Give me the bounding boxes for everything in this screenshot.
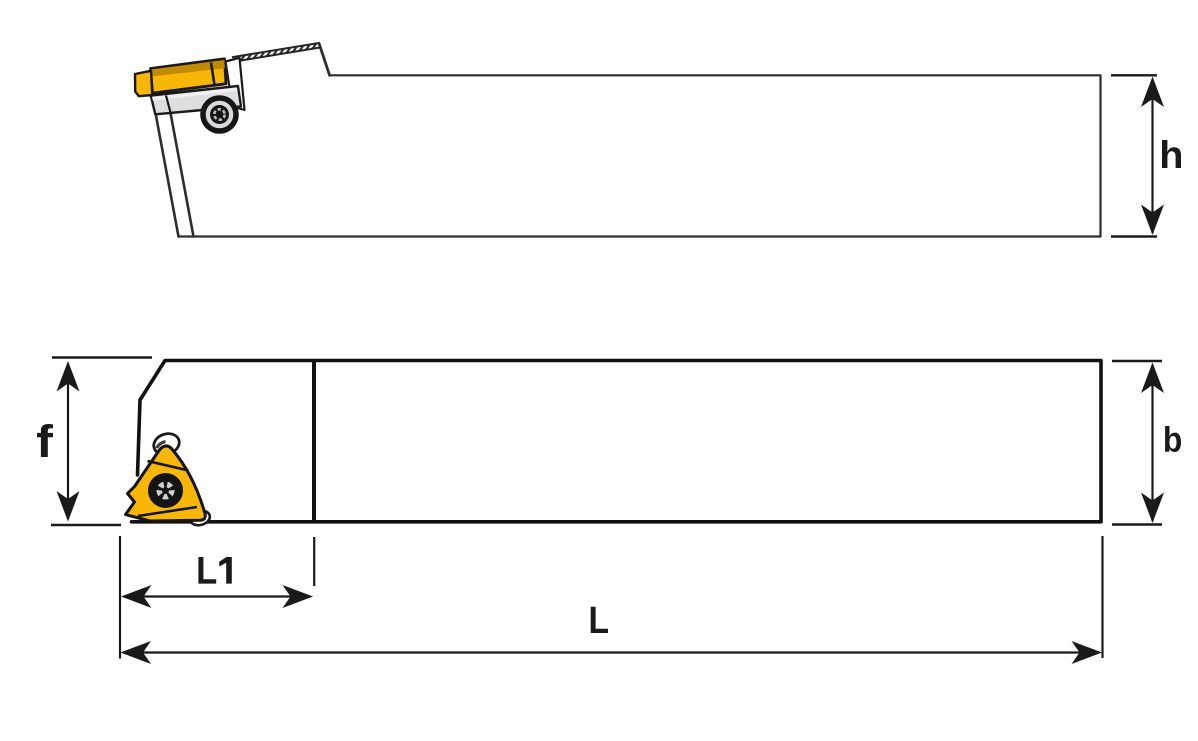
front clearance face edge line 1 bbox=[156, 113, 179, 237]
cartridge inner divider line bbox=[166, 96, 171, 113]
L arrowhead right bbox=[1072, 641, 1103, 664]
dimension f bbox=[37, 358, 152, 526]
f arrowhead up bbox=[57, 361, 80, 392]
hatched clamp arm strip bbox=[232, 43, 320, 62]
f extension tick bottom bbox=[51, 524, 121, 526]
threading insert (plan view, trigon with serrated flank) bbox=[126, 446, 206, 521]
h dimension line bbox=[1151, 79, 1153, 233]
h extension tick top bbox=[1111, 74, 1157, 76]
b extension tick top bbox=[1112, 360, 1162, 362]
clamp screw head (side view) bbox=[200, 95, 239, 134]
f dimension line bbox=[67, 364, 69, 519]
yellow left end cap bbox=[135, 71, 152, 96]
b dimension line bbox=[1151, 365, 1153, 521]
h extension tick bottom bbox=[1111, 235, 1157, 237]
b arrowhead up bbox=[1141, 363, 1164, 394]
insert chip-breaker line lower bbox=[138, 507, 197, 516]
toolholder body plan-view outline with chamfered head bbox=[132, 361, 1102, 522]
head/shank divider line bbox=[312, 362, 316, 521]
dimension L1 bbox=[120, 536, 314, 659]
L1 arrowhead left bbox=[121, 585, 152, 608]
L1/L shared left extension line bbox=[119, 536, 121, 659]
label f bbox=[37, 424, 53, 457]
cartridge top highlight bbox=[152, 88, 237, 101]
f arrowhead down bbox=[57, 491, 80, 522]
b arrowhead down bbox=[1141, 493, 1164, 524]
white clamp finger bbox=[226, 58, 245, 110]
front clearance face edge line 2 bbox=[171, 113, 194, 237]
L arrowhead left bbox=[121, 641, 152, 664]
label L bbox=[591, 607, 608, 633]
dimension h bbox=[1111, 75, 1181, 236]
insert screw hole with torx socket bbox=[148, 473, 183, 508]
label L1 bbox=[198, 557, 231, 584]
grey cartridge block bbox=[151, 86, 241, 114]
insert chip-breaker line upper bbox=[148, 461, 189, 471]
dimension b bbox=[1112, 361, 1181, 525]
dimension L bbox=[121, 536, 1103, 664]
L1 right extension line bbox=[313, 537, 315, 586]
insert bar end divider line bbox=[211, 63, 215, 86]
L1 dimension line bbox=[124, 595, 310, 597]
clamp pin ellipse at insert apex bbox=[151, 430, 182, 457]
b extension tick bottom bbox=[1112, 523, 1162, 525]
L dimension line bbox=[124, 651, 1099, 653]
yellow insert bar (side view) bbox=[151, 59, 227, 93]
step edge at clamp pocket bbox=[319, 43, 330, 75]
f extension tick top bbox=[52, 356, 152, 358]
h arrowhead down bbox=[1141, 205, 1164, 236]
label b bbox=[1165, 426, 1181, 452]
label h bbox=[1162, 140, 1181, 168]
L right extension line bbox=[1101, 536, 1103, 658]
h arrowhead up bbox=[1141, 77, 1164, 108]
toolholder body side-view outline (bottom, right, top edges) bbox=[179, 75, 1101, 236]
small pin ellipse bottom right of insert bbox=[189, 509, 212, 528]
L1 arrowhead right bbox=[283, 585, 314, 608]
insert bar top dark band bbox=[151, 60, 225, 77]
